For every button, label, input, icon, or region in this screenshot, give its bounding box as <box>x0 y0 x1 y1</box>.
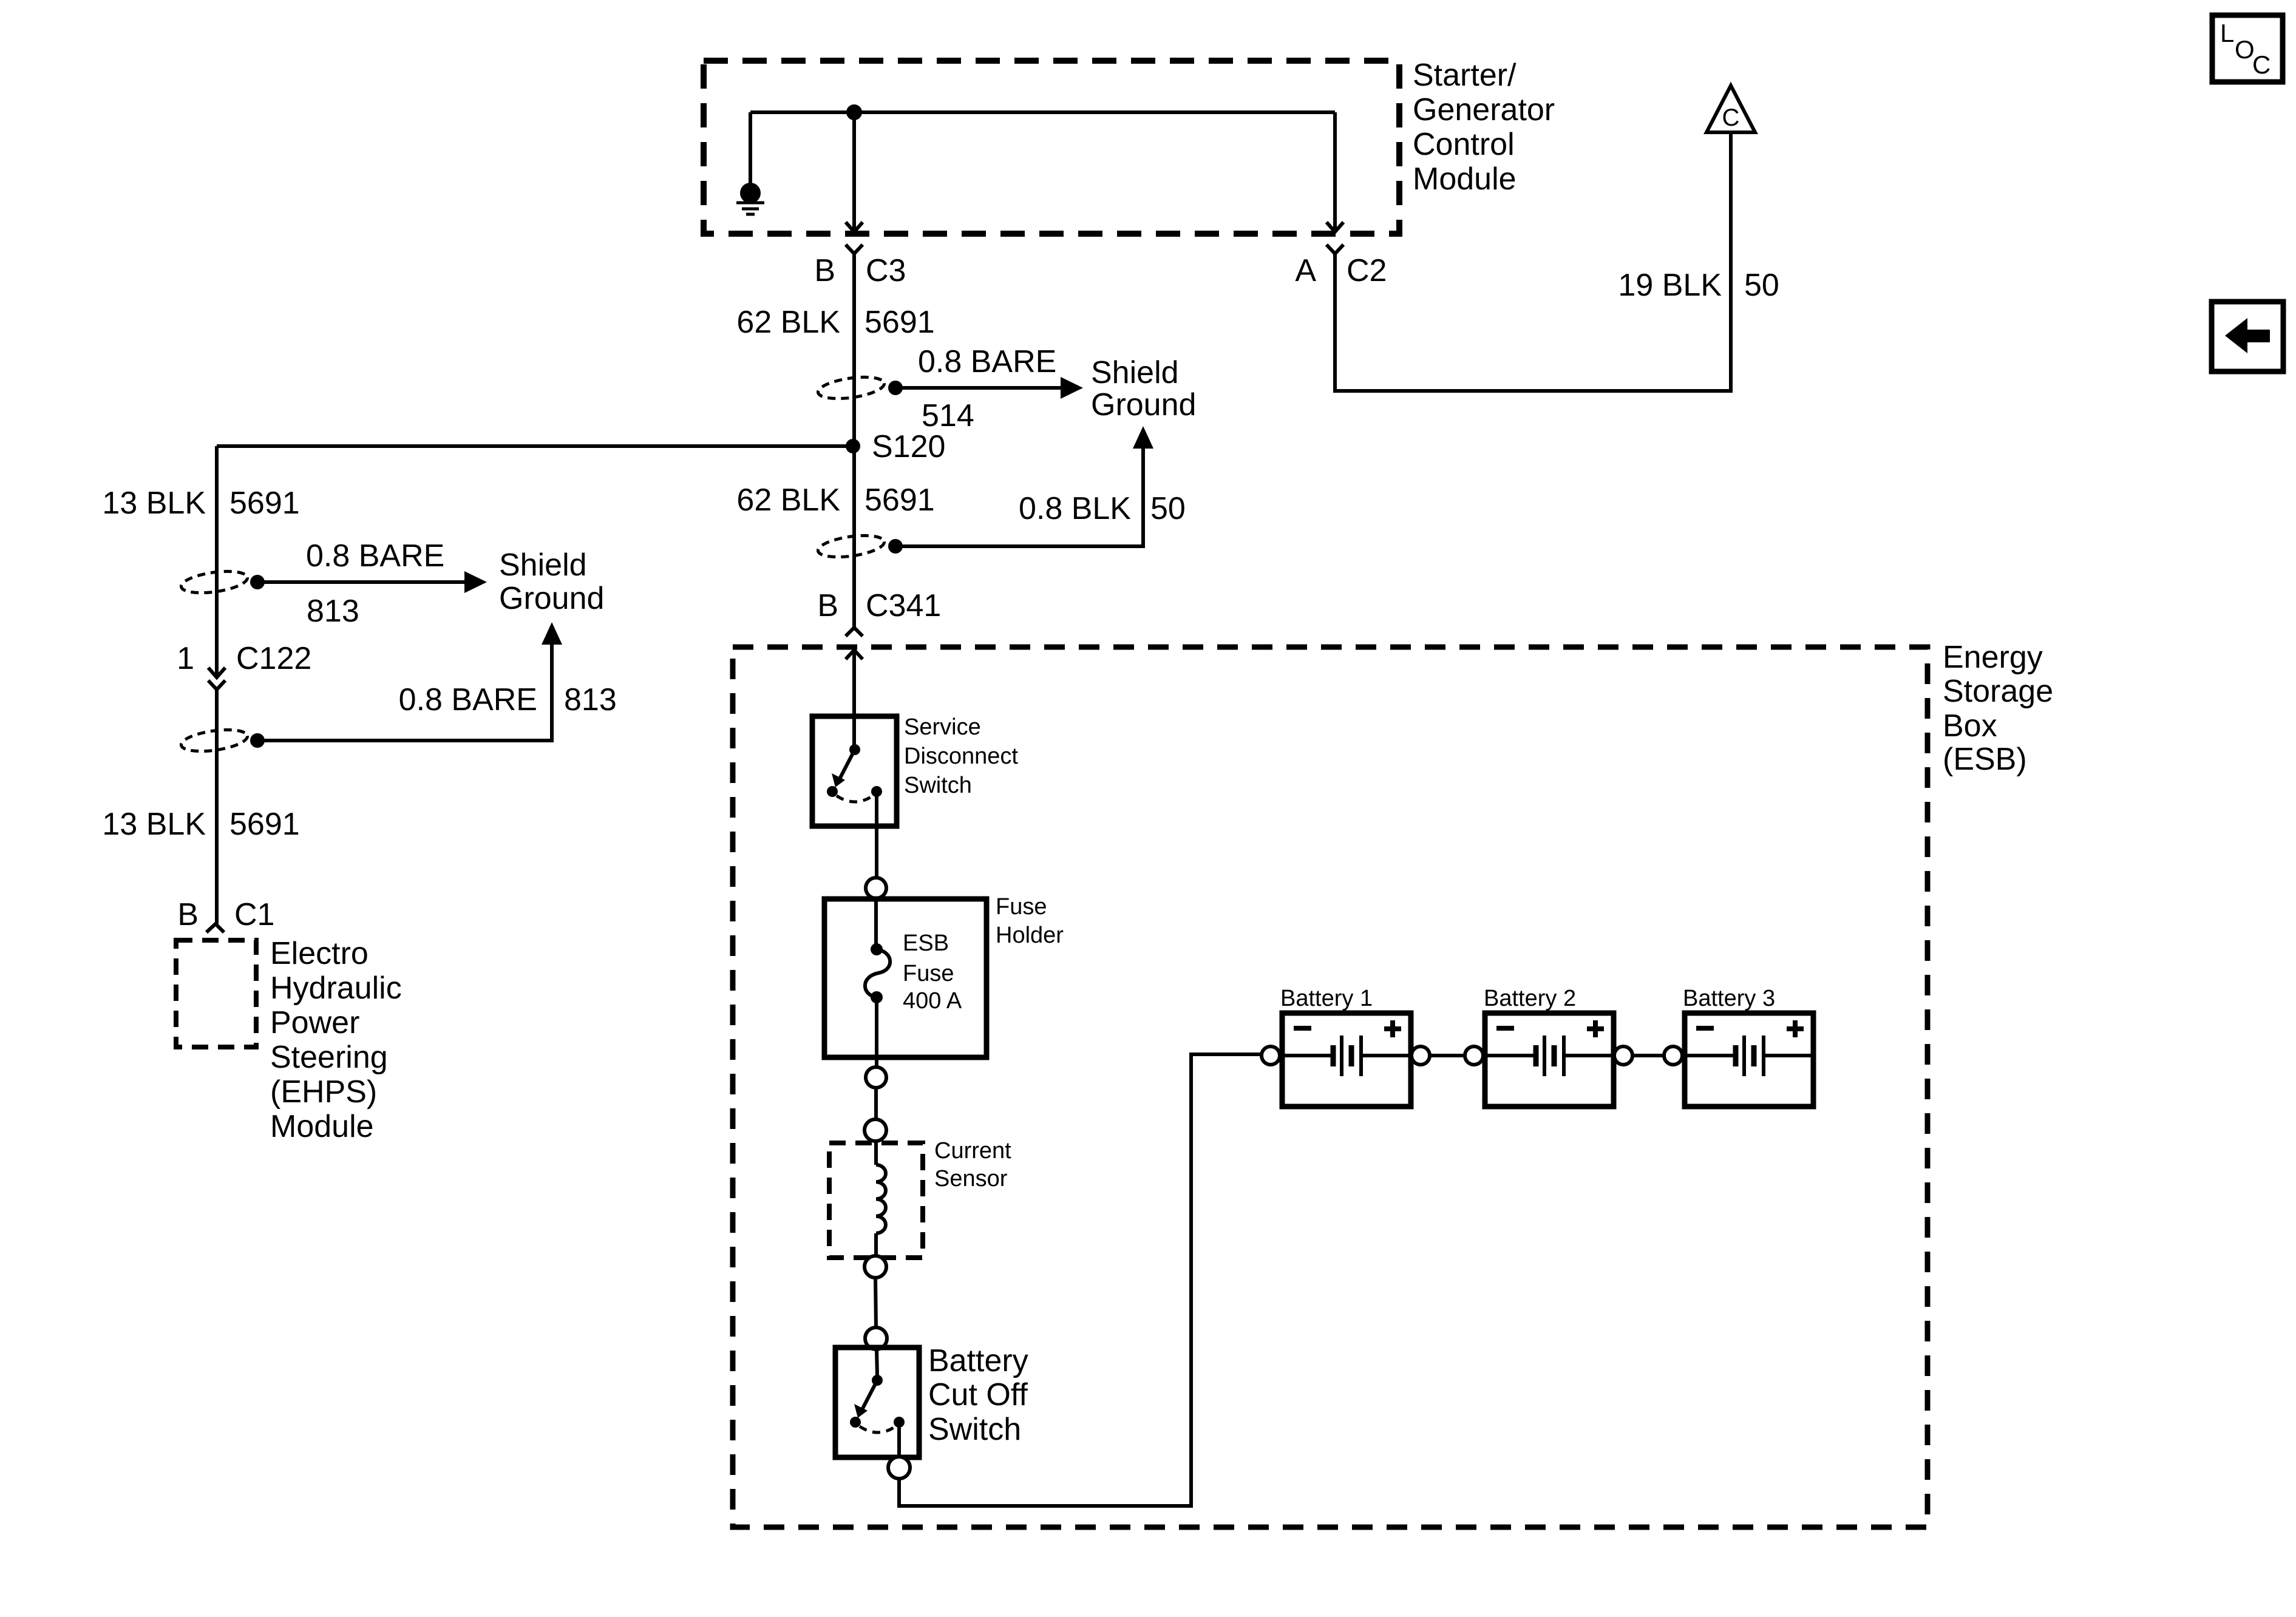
svg-text:Steering: Steering <box>270 1040 388 1075</box>
terminal circle: Battery 3 negative <box>1664 1046 1682 1065</box>
arrow: male terminal entering ESB at C341 <box>846 650 863 659</box>
svg-text:C3: C3 <box>866 253 906 288</box>
svg-text:(EHPS): (EHPS) <box>270 1074 377 1110</box>
terminal circle below current sensor <box>864 1256 886 1278</box>
svg-text:B: B <box>814 253 835 288</box>
switch box: Battery Cut Off Switch <box>835 1347 919 1457</box>
arrow: male terminal at pin A <box>1326 222 1343 232</box>
connector C2 pin A fork <box>1326 245 1343 254</box>
svg-text:B: B <box>817 588 838 623</box>
svg-text:Current: Current <box>934 1138 1011 1164</box>
svg-text:(ESB): (ESB) <box>1943 742 2027 777</box>
wire: into sensor coil <box>874 1141 878 1165</box>
svg-text:Ground: Ground <box>1091 387 1196 422</box>
svg-text:Cut Off: Cut Off <box>928 1377 1028 1412</box>
svg-text:C122: C122 <box>236 641 311 676</box>
svg-text:Module: Module <box>270 1109 374 1144</box>
wire: into cut off switch top contact <box>877 1349 877 1376</box>
svg-text:Box: Box <box>1943 708 1997 744</box>
wire: 62 BLK 5691 from C3 to C341 <box>852 254 856 628</box>
terminal circle above battery cut off switch <box>865 1327 887 1349</box>
svg-text:0.8 BARE: 0.8 BARE <box>306 538 444 574</box>
shield ellipse (lower, circuit 50) <box>817 532 885 561</box>
terminal circle: Battery 1 negative <box>1262 1046 1280 1065</box>
power reference triangle C <box>1707 86 1755 132</box>
shield ellipse (left upper, circuit 813) <box>180 568 248 597</box>
terminal circle below fuse holder <box>866 1067 886 1088</box>
node: shield drain dot (left lower) <box>250 733 265 748</box>
svg-text:0.8 BARE: 0.8 BARE <box>918 344 1056 379</box>
switch SW1: service disconnect contacts and blade <box>827 744 882 802</box>
wire: fuse holder to current sensor <box>874 1088 878 1119</box>
svg-text:A: A <box>1295 253 1316 288</box>
wire: into fuse <box>874 898 878 944</box>
svg-text:Disconnect: Disconnect <box>904 744 1018 769</box>
svg-text:Hydraulic: Hydraulic <box>270 971 402 1006</box>
wire: drain 0.8 BARE 813 to shield ground <box>257 580 467 584</box>
fuse F1: ESB Fuse 400 A <box>865 943 890 1003</box>
icon: back arrow box (right) <box>2212 302 2283 371</box>
wire: Battery 2 to Battery 3 <box>1632 1054 1664 1057</box>
arrow: to shield ground (up) <box>542 622 562 645</box>
svg-text:Battery 1: Battery 1 <box>1280 986 1373 1011</box>
battery BT1: Battery 1 <box>1282 1013 1411 1107</box>
svg-text:1: 1 <box>177 641 194 676</box>
terminal circle: Battery 1 positive <box>1411 1046 1430 1065</box>
svg-text:C2: C2 <box>1347 253 1387 288</box>
wire: loop from cut off switch around to Battery 1 <box>899 1054 1262 1506</box>
svg-text:13 BLK: 13 BLK <box>102 807 206 842</box>
svg-text:62 BLK: 62 BLK <box>736 483 840 518</box>
terminal circle: Battery 2 positive <box>1614 1046 1632 1065</box>
svg-text:C: C <box>1722 104 1740 131</box>
terminal circle: Battery 2 negative <box>1465 1046 1483 1065</box>
svg-text:Sensor: Sensor <box>934 1166 1008 1192</box>
wire: Battery 1 to Battery 2 <box>1430 1054 1465 1057</box>
wire: current sensor to battery cut off switch <box>875 1278 876 1327</box>
ground symbol inside module <box>736 183 764 214</box>
svg-text:19 BLK: 19 BLK <box>1618 268 1722 303</box>
svg-text:Switch: Switch <box>928 1412 1021 1447</box>
connector C3 pin B fork <box>846 245 863 254</box>
svg-text:813: 813 <box>564 682 617 717</box>
svg-text:Electro: Electro <box>270 936 369 971</box>
svg-text:Ground: Ground <box>499 581 604 616</box>
svg-text:Switch: Switch <box>904 773 972 798</box>
arrow: to shield ground (right) <box>1061 377 1083 399</box>
svg-text:Control: Control <box>1413 127 1515 162</box>
sensor box: Current Sensor (dashed) <box>829 1143 923 1258</box>
connector C122 fork <box>208 680 225 690</box>
svg-text:400 A: 400 A <box>903 988 962 1014</box>
svg-text:Shield: Shield <box>499 547 587 583</box>
module box: Starter/Generator Control Module <box>704 61 1399 234</box>
svg-text:Starter/: Starter/ <box>1413 58 1517 93</box>
svg-text:Fuse: Fuse <box>996 894 1047 920</box>
arrow: to shield ground (right) <box>464 571 487 593</box>
svg-text:ESB: ESB <box>903 931 949 956</box>
arrow: male terminal at C122 <box>208 668 225 677</box>
svg-text:Service: Service <box>904 714 981 740</box>
fuse holder box <box>824 899 987 1057</box>
svg-text:Module: Module <box>1413 161 1517 197</box>
arrow: to shield ground (up) <box>1133 426 1153 449</box>
wire: internal horizontal bus inside module <box>750 110 1335 114</box>
wire: ground drop inside module <box>749 112 752 183</box>
wire: 19 BLK 50 from C2 to ground reference C <box>1335 134 1731 391</box>
svg-text:5691: 5691 <box>229 807 300 842</box>
svg-text:B: B <box>177 897 199 932</box>
wire: drain 0.8 BLK 50 to shield ground <box>895 433 1143 546</box>
connector C341 fork <box>846 628 863 636</box>
wire: left vertical 13 BLK 5691 <box>215 446 219 675</box>
shield ellipse (left lower, circuit 813) <box>180 727 248 755</box>
battery BT3: Battery 3 <box>1685 1013 1813 1107</box>
wire: switch to fuse holder <box>875 792 878 878</box>
svg-text:0.8 BLK: 0.8 BLK <box>1019 491 1131 526</box>
svg-text:50: 50 <box>1744 268 1779 303</box>
svg-text:Energy: Energy <box>1943 640 2043 675</box>
icon: LOC box (top right) <box>2212 15 2283 82</box>
svg-text:Battery 2: Battery 2 <box>1484 986 1576 1011</box>
svg-text:Storage: Storage <box>1943 674 2053 709</box>
svg-text:514: 514 <box>922 398 974 433</box>
connector C1 fork at EHPS <box>206 924 224 932</box>
node: shield drain dot (upper) <box>888 381 903 395</box>
module box: Energy Storage Box (ESB) <box>733 647 1927 1527</box>
wire: coil to lower terminal <box>874 1233 878 1256</box>
node: shield drain dot (lower) <box>888 539 903 554</box>
wire: module output to pin B <box>852 112 856 229</box>
wire: module output to pin A <box>1333 112 1337 229</box>
svg-text:Shield: Shield <box>1091 355 1179 390</box>
node: shield drain dot (left upper) <box>250 575 265 589</box>
wire: from C341 entry down to service disconnect switch <box>852 650 856 716</box>
terminal circle above fuse holder <box>866 878 886 898</box>
svg-text:C: C <box>2252 50 2271 79</box>
svg-text:13 BLK: 13 BLK <box>102 486 206 521</box>
svg-text:50: 50 <box>1150 491 1186 526</box>
svg-text:62 BLK: 62 BLK <box>736 305 840 340</box>
node: junction on internal bus <box>846 104 862 120</box>
wire: drain 0.8 BARE 514 to shield ground <box>895 386 1064 390</box>
arrow: male terminal at pin B <box>846 222 863 232</box>
wire: fuse to lower terminal <box>875 997 878 1067</box>
inductor L1: current sensor coil <box>876 1165 886 1233</box>
module box: Electro Hydraulic Power Steering (EHPS) Module <box>176 940 256 1047</box>
wire: drain 0.8 BARE 813 up to shield ground <box>257 629 552 741</box>
svg-text:Power: Power <box>270 1005 359 1040</box>
svg-text:O: O <box>2235 35 2255 64</box>
switch SW2: battery cut off contacts and blade <box>850 1375 905 1432</box>
svg-text:C341: C341 <box>866 588 941 623</box>
wire: into switch top contact <box>852 716 856 745</box>
svg-text:Battery 3: Battery 3 <box>1683 986 1775 1011</box>
svg-text:5691: 5691 <box>229 486 300 521</box>
svg-text:Holder: Holder <box>996 923 1064 948</box>
terminal circle below cut off switch <box>888 1457 910 1479</box>
shield ellipse (upper, circuit 514) <box>817 374 885 402</box>
svg-text:Fuse: Fuse <box>903 961 954 986</box>
svg-text:813: 813 <box>307 594 359 629</box>
svg-text:Generator: Generator <box>1413 92 1555 127</box>
svg-text:0.8 BARE: 0.8 BARE <box>399 682 537 717</box>
wire: 13 BLK 5691 below C122 <box>215 690 219 924</box>
svg-text:5691: 5691 <box>864 483 935 518</box>
svg-text:S120: S120 <box>872 429 945 464</box>
battery BT2: Battery 2 <box>1485 1013 1614 1107</box>
splice S120 <box>846 439 860 453</box>
svg-text:Battery: Battery <box>928 1343 1028 1378</box>
switch box: Service Disconnect Switch <box>812 716 897 826</box>
svg-text:5691: 5691 <box>864 305 935 340</box>
terminal circle above current sensor <box>864 1119 886 1141</box>
wire: S120 branch to EHPS (left run) <box>217 444 853 448</box>
svg-text:L: L <box>2220 19 2234 47</box>
svg-text:C1: C1 <box>234 897 274 932</box>
wire: cut off switch to bottom terminal <box>897 1422 901 1457</box>
